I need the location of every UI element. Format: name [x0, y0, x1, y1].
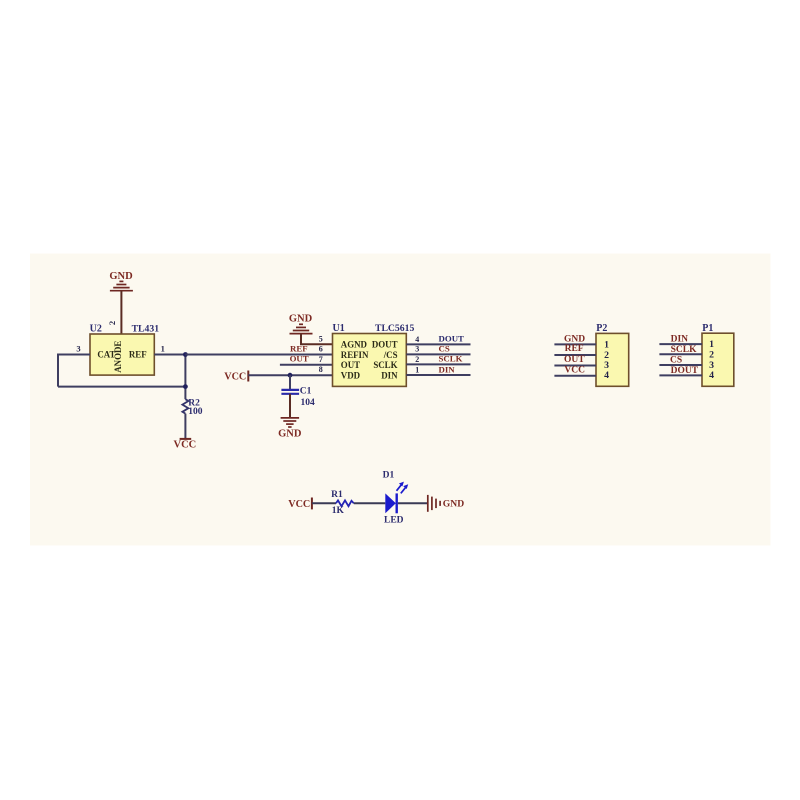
wire D1 to GND: [398, 502, 428, 504]
svg-text:SCLK: SCLK: [373, 360, 397, 370]
svg-text:7: 7: [319, 355, 323, 364]
wire P2 pin 1: [554, 343, 596, 345]
svg-text:CS: CS: [670, 355, 682, 365]
capacitor C1: [281, 375, 299, 418]
svg-text:VDD: VDD: [341, 370, 360, 380]
svg-text:8: 8: [319, 365, 323, 374]
wire U1 pin 2 SCLK: [406, 363, 470, 365]
svg-text:100: 100: [188, 407, 203, 417]
wire P2 pin 2: [554, 354, 596, 356]
wire P1 pin 2: [659, 353, 702, 355]
svg-text:DOUT: DOUT: [372, 340, 398, 350]
svg-text:OUT: OUT: [341, 360, 360, 370]
svg-text:1: 1: [604, 339, 609, 350]
svg-text:SCLK: SCLK: [439, 354, 463, 364]
power VCC (below R2): [180, 438, 192, 440]
wire U2 pin 3: [58, 354, 90, 356]
svg-text:OUT: OUT: [290, 354, 309, 364]
svg-text:U1: U1: [333, 323, 345, 334]
wire feedback left vertical: [57, 354, 59, 387]
svg-text:LED: LED: [384, 515, 404, 525]
svg-text:3: 3: [415, 345, 419, 354]
connector P2 body: [596, 333, 629, 386]
svg-text:DIN: DIN: [671, 334, 689, 344]
svg-text:GND: GND: [278, 428, 302, 439]
svg-text:OUT: OUT: [564, 355, 585, 365]
resistor R1: [336, 500, 354, 506]
svg-text:P1: P1: [702, 323, 713, 334]
junction at REF node: [183, 352, 188, 357]
svg-text:2: 2: [415, 355, 419, 364]
op-amp U2 TL431 body: [90, 334, 154, 375]
svg-text:D1: D1: [383, 470, 395, 480]
svg-text:104: 104: [301, 398, 316, 408]
svg-text:GND: GND: [289, 314, 313, 325]
wire U1 pin 4 DOUT: [406, 343, 470, 345]
sheet background: [30, 254, 771, 546]
wire REF net to U1 pin 6: [185, 354, 332, 356]
resistor R2: [182, 399, 188, 413]
wire P1 pin 4: [659, 374, 702, 376]
svg-text:DOUT: DOUT: [671, 366, 699, 376]
svg-text:1: 1: [161, 343, 165, 353]
svg-text:R1: R1: [331, 490, 343, 500]
svg-text:GND: GND: [564, 335, 585, 345]
svg-text:2: 2: [709, 349, 714, 360]
svg-text:2: 2: [107, 321, 117, 325]
wire R2 to VCC: [184, 414, 186, 439]
svg-text:REF: REF: [129, 349, 147, 359]
wire feedback bottom horizontal: [58, 386, 185, 388]
svg-text:CS: CS: [439, 344, 450, 354]
wire P1 pin 1: [659, 343, 702, 345]
junction at VDD/C1 node: [288, 373, 293, 378]
wire P2 pin 3: [554, 365, 596, 367]
svg-text:GND: GND: [109, 271, 133, 282]
ground GND (LED row): [428, 495, 464, 512]
wire R1 to D1: [354, 502, 386, 504]
svg-text:VCC: VCC: [564, 365, 585, 375]
svg-text:ANODE: ANODE: [113, 341, 123, 373]
svg-text:4: 4: [415, 335, 419, 344]
wire U1 pin 3 CS: [406, 353, 470, 355]
wire VCC to R1: [312, 502, 336, 504]
svg-text:1K: 1K: [332, 506, 345, 516]
svg-text:DIN: DIN: [439, 365, 456, 375]
svg-text:REFIN: REFIN: [341, 350, 369, 360]
wire node REF vertical: [184, 355, 186, 400]
svg-text:AGND: AGND: [341, 340, 367, 350]
svg-text:REF: REF: [565, 344, 584, 354]
svg-text:DIN: DIN: [381, 370, 398, 380]
svg-text:VCC: VCC: [224, 371, 246, 382]
svg-text:4: 4: [604, 370, 609, 381]
svg-text:VCC: VCC: [288, 499, 310, 510]
svg-text:SCLK: SCLK: [671, 345, 697, 355]
svg-text:GND: GND: [443, 499, 464, 510]
wire GND to U1 pin 5: [301, 334, 333, 345]
svg-text:DOUT: DOUT: [439, 334, 465, 344]
svg-text:TLC5615: TLC5615: [375, 323, 414, 334]
wire U1 pin 1 DIN: [406, 374, 470, 376]
svg-text:4: 4: [709, 370, 714, 381]
svg-text:U2: U2: [90, 324, 102, 335]
svg-text:5: 5: [319, 335, 323, 344]
junction at feedback node: [183, 384, 188, 389]
ground GND (above U2): [109, 271, 133, 291]
svg-text:3: 3: [76, 343, 80, 353]
wire GND stem to U2 pin 2: [120, 291, 122, 334]
svg-text:6: 6: [319, 345, 323, 354]
svg-text:1: 1: [415, 365, 419, 374]
svg-text:VCC: VCC: [174, 440, 197, 451]
connector P1 body: [702, 333, 734, 386]
wire VCC to U1 pin 8: [248, 374, 332, 376]
wire OUT stub to U1 pin 7: [280, 364, 333, 366]
svg-text:/CS: /CS: [383, 350, 398, 360]
wire P1 pin 3: [659, 364, 702, 366]
op-amp U1 TLC5615 body: [333, 334, 407, 387]
svg-text:P2: P2: [596, 323, 607, 334]
svg-text:TL431: TL431: [132, 324, 160, 335]
wire P2 pin 4: [554, 375, 596, 377]
ground GND (at U1 pin 5): [289, 314, 313, 334]
ground GND (below C1): [278, 418, 302, 440]
svg-text:C1: C1: [300, 386, 312, 396]
wire U2 pin 1 to node REF: [154, 354, 185, 356]
LED D1: [385, 482, 408, 514]
